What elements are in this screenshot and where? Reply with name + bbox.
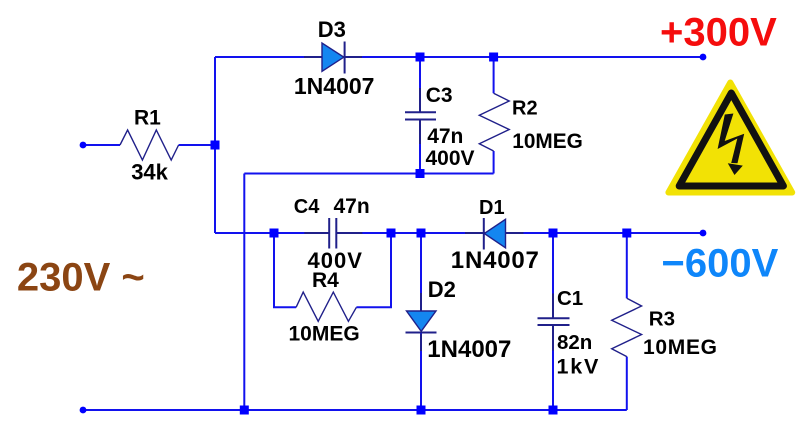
junction node R3 top [622, 229, 631, 238]
junction node D2 bottom [417, 406, 426, 415]
wire top rail +300V [215, 56, 703, 58]
svg-text:400V: 400V [426, 147, 475, 170]
wire R1 left lead [83, 144, 120, 146]
resistor R4 [296, 292, 356, 321]
lightning bolt [718, 114, 745, 164]
wire R4 loop right side [356, 233, 391, 307]
wire R1 right lead [179, 144, 215, 146]
wire R2 top lead [493, 57, 495, 93]
wire C3 top lead [419, 57, 421, 112]
capacitor C3 [405, 88, 436, 144]
capacitor C4 [304, 218, 362, 249]
svg-text:D1: D1 [479, 197, 505, 219]
junction node R2 top [489, 53, 498, 62]
svg-text:+300V: +300V [660, 11, 777, 55]
wire vertical from C3 net down to ground rail [243, 174, 245, 411]
svg-text:C1: C1 [557, 287, 583, 310]
svg-text:47n: 47n [334, 195, 370, 218]
terminal -600V [700, 230, 707, 237]
svg-text:10MEG: 10MEG [289, 323, 360, 346]
junction node C3 top [416, 53, 425, 62]
resistor R2 [479, 93, 509, 151]
junction node C1 bottom [549, 406, 558, 415]
svg-text:34k: 34k [131, 159, 168, 184]
svg-text:C4: C4 [294, 196, 320, 218]
svg-text:1N4007: 1N4007 [451, 247, 540, 274]
svg-text:R3: R3 [649, 307, 675, 330]
svg-text:1N4007: 1N4007 [427, 336, 511, 363]
junction node D2 top [417, 229, 426, 238]
junction node C4 left [270, 229, 279, 238]
wire C3 bottom lead [419, 120, 421, 174]
svg-text:R2: R2 [512, 98, 538, 120]
svg-text:1kV: 1kV [557, 354, 601, 378]
resistor R3 [612, 298, 642, 356]
terminal input top [80, 142, 87, 149]
svg-text:10MEG: 10MEG [643, 336, 718, 359]
wire mid rail from C4 right to -600V terminal [338, 232, 704, 234]
diode D1 [465, 218, 524, 250]
junction node C1 top [549, 229, 558, 238]
svg-text:D2: D2 [428, 277, 456, 302]
capacitor C1 [538, 294, 570, 351]
diode D3 [304, 42, 362, 74]
wire R4 loop left side [274, 233, 296, 307]
svg-text:−600V: −600V [662, 241, 779, 285]
wire mid rail segment to C4 left [215, 232, 328, 234]
svg-text:47n: 47n [427, 125, 463, 148]
wire R2 bottom lead [493, 151, 495, 174]
resistor R1 [120, 130, 179, 160]
wire C1 bottom lead [552, 325, 554, 410]
svg-text:D3: D3 [318, 17, 346, 42]
svg-text:C3: C3 [426, 84, 453, 107]
wire horizontal under C3 to R2 bottom [244, 173, 493, 175]
junction node C3 bottom [416, 169, 425, 178]
svg-text:82n: 82n [557, 331, 592, 354]
wire C1 top lead [552, 233, 554, 318]
svg-text:1N4007: 1N4007 [294, 73, 375, 99]
junction node R1/D3 [211, 141, 220, 150]
svg-text:230V ~: 230V ~ [17, 256, 145, 300]
wire D2 top lead [420, 233, 422, 311]
junction node C4 right [387, 229, 396, 238]
wire R3 bottom lead [626, 357, 628, 410]
high voltage warning sign [668, 83, 792, 193]
wire R3 top lead [626, 233, 628, 298]
svg-text:R1: R1 [134, 106, 161, 129]
wire D2 bottom lead to ground rail [420, 333, 422, 411]
diode D2 [406, 293, 437, 351]
wire left vertical from top rail to R1 junction and down to mid rail [214, 57, 216, 233]
junction node ground-C3 net [240, 406, 249, 415]
terminal +300V [700, 54, 707, 61]
svg-text:10MEG: 10MEG [512, 130, 583, 153]
wire bottom ground rail [83, 409, 627, 411]
terminal input bottom [80, 407, 87, 414]
svg-text:R4: R4 [312, 269, 339, 292]
